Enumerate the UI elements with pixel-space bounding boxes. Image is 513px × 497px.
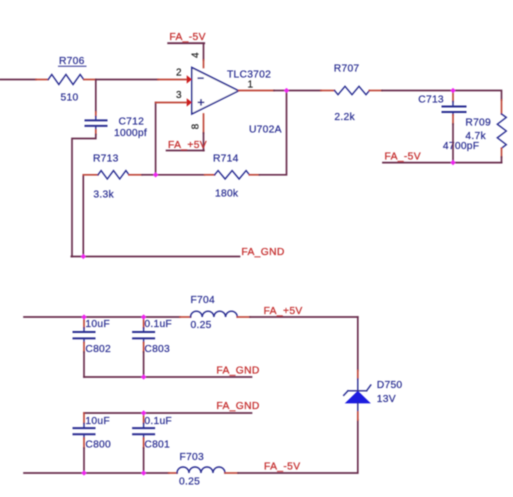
svg-text:F704: F704 [191,295,215,306]
node R713 R714 pin3 [153,172,158,177]
node opamp output feedback [284,88,289,93]
wire output junction to R707 [287,90,322,92]
wire R714 right to feedback vertical [249,174,259,176]
svg-text:C803: C803 [144,344,170,355]
wire C712 down and left to FA_GND rail [95,130,97,135]
capacitor C803 0.1uF [133,317,172,355]
power FA_+5V bottom of opamp [167,140,207,151]
resistor R707 2.2k [334,64,370,123]
svg-text:FA_+5V: FA_+5V [168,140,207,151]
wire F703 to zener column [225,472,238,474]
svg-text:D750: D750 [377,380,403,391]
wire F704 to corner [237,316,250,318]
svg-text:FA_GND: FA_GND [216,401,259,412]
svg-text:C800: C800 [85,440,111,451]
capacitor C800 10uF [74,413,112,451]
wire R709 bottom [501,148,503,157]
svg-text:4: 4 [191,52,202,58]
power FA_-5V right rail [383,152,502,163]
node C803 top [141,314,146,319]
node C803 bottom [141,374,146,379]
FA_GND rail mid [71,247,284,258]
resistor R714 180k [213,154,249,200]
FA_GND rail below C802 C803 [84,366,260,377]
wire pin3 horizontal [156,102,186,104]
wire R713 left leg down [82,175,84,257]
wire zener anode down [357,412,359,420]
wire R706 to opamp pin2 [84,79,95,81]
wire input left to R706 [0,79,36,81]
svg-text:FA_+5V: FA_+5V [264,306,303,317]
wire C803 stem bottom [143,352,145,377]
node C713 bottom [450,160,455,165]
resistor R713 3.3k [93,153,129,200]
inductor F704 0.25 [191,295,238,331]
wire C802 stem bottom [83,352,85,377]
resistor R709 4.7k vertical [465,114,506,148]
svg-text:R713: R713 [93,153,119,164]
wire +5V rail from left [24,316,180,318]
svg-text:2.2k: 2.2k [334,112,355,123]
FA_GND rail top of C800 C801 [84,401,260,413]
svg-text:R714: R714 [213,154,239,165]
wire -5V rail from left [24,472,169,474]
svg-text:3.3k: 3.3k [93,190,114,201]
capacitor C713 4700pF [418,91,479,153]
svg-text:C713: C713 [418,95,444,106]
svg-text:FA_GND: FA_GND [216,366,259,377]
wire R707 to C713 junction [369,90,382,92]
wire C801 stem bottom [143,448,145,473]
svg-text:FA_-5V: FA_-5V [385,152,421,163]
capacitor C712 1000pf [86,117,148,139]
node C801 top [141,410,146,415]
node C802 top [81,314,86,319]
svg-text:0.1uF: 0.1uF [144,416,172,427]
pin 2 arrowhead [187,75,192,83]
svg-text:10uF: 10uF [85,319,109,330]
svg-text:C712: C712 [119,117,145,128]
svg-text:R709: R709 [465,118,491,129]
wire C713 bottom [452,115,454,124]
svg-text:C801: C801 [144,440,170,451]
pin 8 wire [203,114,205,133]
svg-text:3: 3 [176,90,182,101]
resistor R706 510 [48,56,86,104]
svg-text:180k: 180k [215,188,239,199]
svg-text:10uF: 10uF [85,416,109,427]
op-amp U702A TLC3702 with pin numbers 1 2 3 4 8 [176,52,282,136]
node C713 top [450,88,455,93]
svg-text:0.25: 0.25 [179,476,200,487]
inductor F703 0.25 [177,452,225,487]
node C800 bottom [81,470,86,475]
wire junction to R709 top [453,91,502,101]
svg-text:13V: 13V [377,394,396,405]
svg-text:F703: F703 [180,452,204,463]
svg-text:0.25: 0.25 [191,320,212,331]
svg-text:FA_-5V: FA_-5V [169,32,205,43]
power FA_-5V top [168,32,206,43]
capacitor C802 10uF [74,317,112,355]
capacitor C801 0.1uF [133,413,172,451]
svg-text:2: 2 [176,67,182,78]
svg-text:R707: R707 [334,64,360,75]
svg-text:R706: R706 [59,56,85,67]
pin 4 wire [203,43,205,60]
svg-text:0.1uF: 0.1uF [144,319,172,330]
svg-text:4700pF: 4700pF [443,141,479,152]
wire junction to R714 [156,174,205,176]
svg-text:C802: C802 [85,344,111,355]
wire down from node to C712 [95,80,97,113]
svg-text:U702A: U702A [249,125,282,136]
node FA_GND left [81,254,86,259]
wire R713 to junction [129,174,142,176]
pin 3 arrowhead [187,98,192,106]
svg-text:FA_-5V: FA_-5V [264,461,300,472]
svg-text:1: 1 [248,80,254,91]
wire C800 stem bottom [83,448,85,473]
node C801 bottom rail [141,470,146,475]
svg-text:1000pf: 1000pf [114,128,147,139]
wire pin3 vertical [155,103,157,175]
svg-text:510: 510 [61,93,79,104]
svg-text:8: 8 [191,123,202,129]
zener diode D750 13V [344,379,403,412]
svg-text:FA_GND: FA_GND [241,247,284,258]
wire +5V rail down to zener [357,317,359,371]
wire opamp output [239,90,274,92]
